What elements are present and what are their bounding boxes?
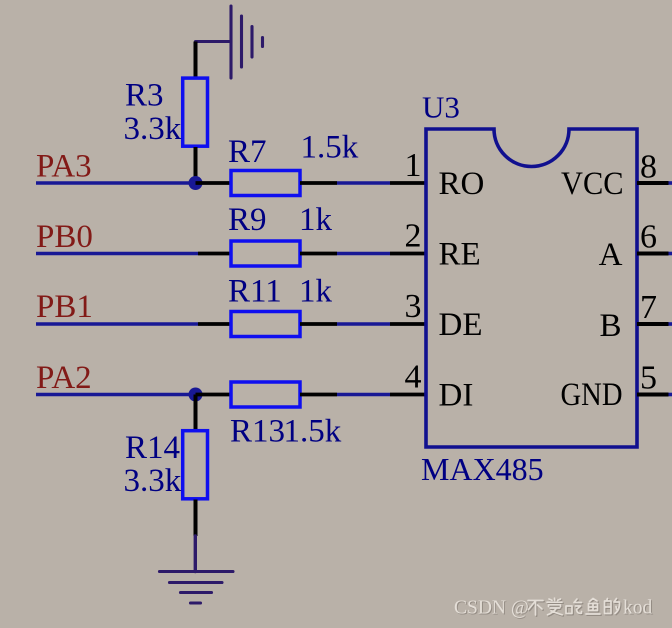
svg-text:RE: RE: [439, 237, 481, 273]
svg-text:R11: R11: [228, 274, 282, 310]
power symbol VCC rail (rotated ground bars): [196, 6, 263, 78]
resistor R3: [183, 78, 208, 146]
svg-text:R3: R3: [125, 78, 164, 114]
wire R7 left stub: [196, 181, 232, 185]
svg-text:1.5k: 1.5k: [301, 130, 359, 166]
svg-text:PB0: PB0: [36, 219, 93, 255]
wire net to pin 2: [337, 252, 390, 256]
svg-text:7: 7: [640, 289, 657, 326]
wire R13 left stub: [196, 393, 232, 397]
svg-text:RO: RO: [439, 166, 485, 202]
wire pin 2 stub: [390, 252, 426, 256]
wire PA3 net: [36, 181, 196, 185]
svg-text:VCC: VCC: [561, 166, 624, 202]
svg-text:8: 8: [640, 149, 657, 186]
svg-text:U3: U3: [422, 90, 460, 125]
svg-text:1: 1: [405, 147, 422, 184]
wire PB1 net: [36, 322, 198, 326]
resistor R11: [231, 312, 300, 337]
pin 7 stub: [637, 322, 669, 326]
wire R3 bottom stub: [194, 147, 198, 183]
wire PB0 net: [36, 252, 198, 256]
wire R14 bottom stub: [194, 500, 198, 537]
pin 6 stub: [637, 252, 669, 256]
svg-text:PA3: PA3: [36, 149, 92, 185]
wire net to pin 4: [337, 393, 390, 397]
wire R7 right stub: [300, 181, 337, 185]
svg-text:B: B: [599, 308, 621, 344]
svg-text:R13: R13: [230, 414, 285, 450]
svg-text:MAX485: MAX485: [421, 451, 544, 487]
wire R14 top stub: [194, 395, 198, 431]
pin 8 stub: [637, 181, 669, 185]
svg-text:1k: 1k: [299, 274, 333, 310]
svg-text:3.3k: 3.3k: [124, 463, 182, 499]
watermark handle 不爱吃鱼的 (drawn strokes): [528, 598, 621, 616]
resistor R14: [183, 431, 208, 499]
wire pin 3 stub: [390, 322, 426, 326]
svg-text:R9: R9: [228, 202, 267, 238]
svg-text:2: 2: [405, 218, 422, 255]
wire net to pin 1: [337, 181, 390, 185]
svg-text:kod: kod: [623, 598, 653, 619]
wire R11 left stub: [198, 322, 231, 326]
resistor R7: [231, 171, 300, 196]
svg-text:DI: DI: [439, 378, 474, 414]
svg-text:DE: DE: [439, 307, 483, 343]
wire R11 right stub: [300, 322, 337, 326]
pin 5 stub: [637, 393, 669, 397]
resistor R13: [231, 382, 300, 407]
svg-text:6: 6: [640, 219, 657, 256]
ground: [160, 536, 234, 603]
svg-text:1k: 1k: [299, 202, 333, 238]
svg-text:CSDN @: CSDN @: [454, 598, 529, 619]
svg-text:PA2: PA2: [36, 360, 92, 396]
watermark kod: [623, 598, 654, 620]
wire pin 1 stub: [390, 181, 426, 185]
svg-text:GND: GND: [561, 377, 623, 413]
svg-text:4: 4: [405, 359, 422, 396]
svg-text:R14: R14: [125, 430, 180, 466]
svg-text:PB1: PB1: [36, 289, 93, 325]
wire PA2 net: [36, 393, 196, 397]
wire net to pin 3: [337, 322, 390, 326]
IC U3 MAX485 body: [426, 129, 637, 447]
svg-text:3.3k: 3.3k: [124, 111, 182, 147]
wire R9 right stub: [300, 252, 337, 256]
junction PA3/R3/R7: [189, 176, 203, 190]
watermark CSDN @: [454, 598, 530, 620]
wire pin 4 stub: [390, 393, 426, 397]
svg-text:3: 3: [405, 288, 422, 325]
wire R3 top stub: [194, 42, 198, 78]
svg-text:5: 5: [640, 360, 657, 397]
junction PA2/R13/R14: [189, 388, 203, 402]
wire R13 right stub: [300, 393, 337, 397]
svg-text:A: A: [599, 237, 623, 273]
svg-text:1.5k: 1.5k: [284, 414, 342, 450]
svg-text:R7: R7: [228, 134, 267, 170]
wire R9 left stub: [198, 252, 231, 256]
resistor R9: [231, 241, 300, 266]
